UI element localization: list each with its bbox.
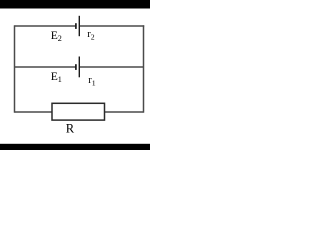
resistor R — [52, 103, 105, 120]
wire top-left segment — [15, 25, 76, 27]
wire top-right segment — [79, 25, 144, 27]
wire middle-left segment — [15, 66, 76, 68]
wire bottom-left segment — [15, 111, 53, 113]
wire right vertical — [143, 25, 145, 112]
battery E1 — [76, 57, 79, 78]
wire middle-right segment — [79, 66, 143, 68]
svg-text:R: R — [66, 122, 75, 136]
wire bottom-right segment — [105, 111, 144, 113]
wire left vertical — [14, 25, 16, 112]
battery E2 — [76, 16, 79, 36]
